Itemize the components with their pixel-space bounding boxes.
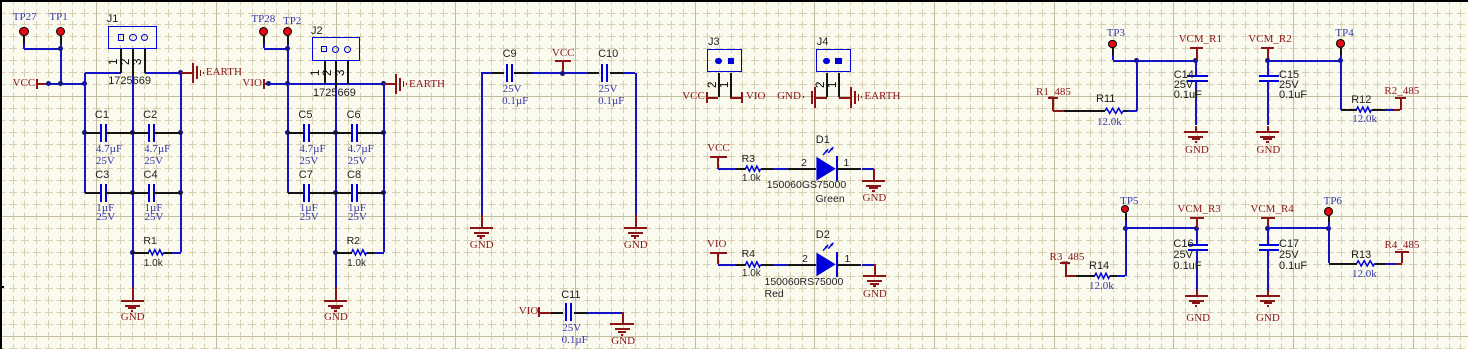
power port R1_485	[1036, 87, 1071, 98]
junction left rail row1 s2	[285, 130, 290, 135]
power port VCC (J3)	[682, 91, 705, 102]
wire R11 drop	[1136, 60, 1138, 110]
junction mid rail R2	[333, 250, 338, 255]
connector J1 body	[108, 26, 157, 49]
power port GND (C15)	[1267, 126, 1269, 132]
resistor R2	[336, 252, 352, 254]
D2 pin 2 number	[802, 254, 808, 265]
power port VCM_R2	[1248, 34, 1291, 45]
power port GND (D1)	[873, 169, 875, 181]
wire right rail section 2	[383, 84, 385, 252]
power port GND (C16)	[1196, 290, 1198, 296]
test point TP5	[1121, 205, 1130, 214]
junction VIO port	[266, 81, 271, 86]
LED D2	[0, 0, 1, 1]
wire left rail (VCC)	[84, 84, 86, 193]
junction VCC rail to ladder	[82, 81, 87, 86]
power port GND (C10)	[635, 215, 637, 229]
capacitor C2	[132, 132, 148, 134]
power port GND (J4, earth style)	[777, 91, 801, 102]
power port R4_485	[1395, 263, 1402, 265]
capacitor C17	[1267, 228, 1269, 245]
wire C11 to GND	[588, 312, 623, 314]
D1 pin 1 lead	[838, 168, 862, 170]
J4 pin 1 lead	[838, 73, 840, 98]
wire TP3 to rail	[1112, 55, 1114, 60]
pin of TP3	[1112, 48, 1114, 55]
wire R14 drop	[1125, 228, 1127, 276]
wire TP6 to rail	[1328, 222, 1330, 228]
wire J1 pin 3 to EARTH	[145, 72, 181, 74]
test point TP4	[1336, 39, 1345, 48]
D2 part number	[765, 277, 844, 288]
capacitor C5	[288, 132, 304, 134]
wire VCM_R3 rail	[1125, 227, 1196, 229]
test point TP28	[259, 27, 268, 36]
D2 pin 1 lead	[838, 264, 862, 266]
wire C9/C10 rail left segment	[481, 72, 492, 74]
power port GND (C17)	[1267, 290, 1269, 296]
pin of TP6	[1328, 215, 1330, 222]
capacitor C10	[588, 72, 600, 74]
J3 pin 2 lead	[718, 73, 720, 98]
J4 pin number 2	[816, 81, 828, 87]
J1 pin 1 pad (square)	[118, 34, 125, 41]
junction VCM_R3 node	[1194, 226, 1199, 231]
capacitor C14	[1195, 60, 1197, 76]
power port GND (D2)	[874, 264, 876, 276]
capacitor C6	[336, 132, 352, 134]
junction right rail row1	[178, 130, 183, 135]
capacitor C4	[132, 192, 148, 194]
resistor R1	[132, 252, 148, 254]
junction mid rail row2 s2	[333, 190, 338, 195]
wire TP5 to rail	[1125, 220, 1127, 228]
D1 part number	[767, 180, 846, 191]
J2 pin 2 lead	[335, 61, 337, 87]
capacitor C8	[336, 192, 352, 194]
capacitor C16	[1196, 228, 1198, 245]
test point TP2	[283, 27, 292, 36]
J1 pin number 2	[121, 59, 133, 65]
J2 pin number 2	[323, 69, 335, 75]
pin of TP1	[60, 36, 62, 44]
J2 pin number 1	[311, 69, 323, 75]
wire TP4 to rail	[1340, 55, 1342, 60]
J3 pin number 1	[720, 81, 732, 87]
junction TP4 node	[1338, 58, 1343, 63]
power port GND (C14)	[1195, 126, 1197, 132]
wire left rail section 2	[287, 84, 289, 193]
connector J3 body	[707, 49, 743, 73]
resistor R3	[736, 168, 746, 170]
power port VIO (J3)	[730, 97, 741, 99]
J3 pin 1 pad (square)	[728, 58, 735, 65]
J1 pin 2 pad (circle)	[129, 34, 136, 41]
pin of TP2	[287, 35, 289, 44]
resistor R11	[1064, 110, 1105, 112]
wire R3 to D1	[773, 168, 788, 170]
D1 pin 1 number	[844, 158, 850, 169]
power port R3_485	[1050, 252, 1085, 263]
sheet border top	[0, 0, 1468, 2]
J2 pin 3 pad (circle)	[344, 46, 351, 53]
wire C9 to VCC tap	[532, 72, 588, 74]
wire C9/C10 rail right segment	[623, 72, 635, 74]
test point TP3	[1108, 40, 1117, 49]
wire D1 to GND	[862, 168, 874, 170]
power port GND (section 1)	[132, 287, 134, 301]
J2 pin 2 pad (circle)	[332, 46, 339, 53]
resistor R14	[1076, 275, 1095, 277]
junction right rail row1 s2	[381, 130, 386, 135]
power port VCC	[13, 78, 36, 89]
J2 pin 3 lead	[347, 61, 349, 84]
pin of TP5	[1125, 213, 1127, 220]
sheet border left	[0, 0, 2, 349]
wire R12 drop	[1340, 60, 1342, 109]
test point TP1	[56, 27, 65, 36]
power port GND (C9)	[481, 215, 483, 229]
connector J4 body	[816, 49, 852, 73]
J3 pin number 2	[708, 81, 720, 87]
wire VCM_R4 rail	[1268, 227, 1329, 229]
capacitor C3	[85, 192, 101, 194]
wire R4 to D2	[773, 264, 788, 266]
wire VCC rail riser to J1 pin 1	[84, 73, 86, 84]
test point TP6	[1324, 207, 1333, 216]
power port EARTH	[181, 72, 193, 74]
junction at TP27/TP1 wires	[58, 46, 63, 51]
power port VCM_R4	[1250, 204, 1293, 215]
wire C10 ground drop	[635, 73, 637, 215]
J4 pin 1 pad (square)	[835, 58, 842, 65]
power port R2_485	[1394, 109, 1400, 111]
power port EARTH (J4)	[839, 97, 851, 99]
junction mid rail row2	[130, 190, 135, 195]
J2 pin number 3	[336, 69, 348, 75]
J3 pin 1 lead	[730, 73, 732, 98]
wire TP2 down to VIO rail	[287, 44, 289, 84]
resistor R12	[1341, 109, 1357, 111]
LED D1	[0, 0, 1, 1]
pin of TP4	[1340, 47, 1342, 55]
wire VIO to R4	[718, 264, 736, 266]
J2 pin 1 lead	[324, 61, 326, 84]
power port VCC (C9/C10)	[552, 48, 575, 59]
junction TP2 on VIO rail	[285, 81, 290, 86]
wire TP1 down to VCC rail	[60, 44, 62, 84]
J1 pin 3 pad (circle)	[141, 34, 148, 41]
D2 comment Red	[765, 289, 784, 300]
J2 pin 1 pad (square)	[321, 46, 328, 53]
junction right rail row2	[178, 190, 183, 195]
pin of TP28	[263, 35, 265, 44]
J4 pin number 1	[828, 81, 840, 87]
power port VIO (C11)	[519, 306, 539, 317]
D1 pin 2 lead	[788, 168, 817, 170]
junction TP28/TP2	[285, 46, 290, 51]
capacitor C1	[85, 132, 101, 134]
wire middle rail	[132, 76, 134, 287]
capacitor C15	[1267, 60, 1269, 76]
junction TP1 on VCC rail	[58, 81, 63, 86]
J1 value 1725669	[108, 76, 151, 87]
wire D2 to GND	[862, 264, 875, 266]
power port VCC (D1)	[707, 143, 730, 154]
wire VCM_R2 rail	[1268, 60, 1341, 62]
resistor R13	[1329, 263, 1357, 265]
wire VCC rail	[48, 83, 84, 85]
power port GND (section 2)	[335, 287, 337, 301]
J4 pin 2 lead	[826, 73, 828, 98]
resistor R4	[736, 264, 746, 266]
D1 pin 2 number	[801, 158, 807, 169]
power port EARTH (section 2)	[384, 83, 396, 85]
junction VCM_R1 node	[1193, 58, 1198, 63]
wire R13 drop	[1328, 228, 1330, 263]
junction right rail row2 s2	[381, 190, 386, 195]
test point TP27	[19, 27, 28, 36]
junction left rail row1	[82, 130, 87, 135]
wire C9 ground drop	[481, 73, 483, 215]
J1 pin number 1	[109, 59, 121, 65]
power port VCM_R1	[1179, 34, 1222, 45]
junction R11 drop	[1134, 58, 1139, 63]
J3 pin 2 pad (circle)	[715, 58, 722, 65]
D2 pin 2 lead	[788, 264, 817, 266]
power port VIO (D2)	[707, 239, 727, 250]
J4 pin 2 pad (circle)	[823, 58, 830, 65]
junction VCC port	[46, 81, 51, 86]
pin of TP27	[23, 36, 25, 44]
wire TP28 to TP2 net	[263, 44, 265, 48]
capacitor C11	[551, 312, 563, 314]
capacitor C7	[288, 192, 304, 194]
junction mid rail R1	[130, 250, 135, 255]
junction VCM_R4 node	[1265, 226, 1270, 231]
power port VIO	[242, 78, 262, 89]
J2 value 1725669	[313, 88, 356, 99]
J1 pin number 3	[133, 59, 145, 65]
junction TP6 node	[1326, 226, 1331, 231]
wire VIO rail	[268, 83, 383, 85]
J1 pin 1 lead	[120, 49, 122, 73]
junction mid rail row1 s2	[333, 130, 338, 135]
J1 pin 3 lead	[144, 49, 146, 73]
power port VCM_R3	[1177, 204, 1220, 215]
sheet border tick	[0, 286, 4, 288]
wire middle rail section 2	[335, 87, 337, 287]
power port GND (C11)	[622, 312, 624, 324]
junction mid rail row1	[130, 130, 135, 135]
D1 comment Green	[816, 194, 845, 205]
connector J2 body	[312, 37, 361, 60]
wire TP27 to TP1 net	[23, 44, 25, 49]
J1 pin 2 lead	[132, 49, 134, 76]
junction EARTH node	[178, 70, 183, 75]
junction TP5 node	[1123, 226, 1128, 231]
junction VCC tap	[560, 71, 565, 76]
D2 pin 1 number	[845, 254, 851, 265]
junction VCM_R2 node	[1265, 58, 1270, 63]
capacitor C9	[492, 72, 504, 74]
wire right rail (EARTH)	[180, 73, 182, 252]
wire VCC to R3	[718, 168, 736, 170]
junction EARTH node (section 2)	[381, 81, 386, 86]
